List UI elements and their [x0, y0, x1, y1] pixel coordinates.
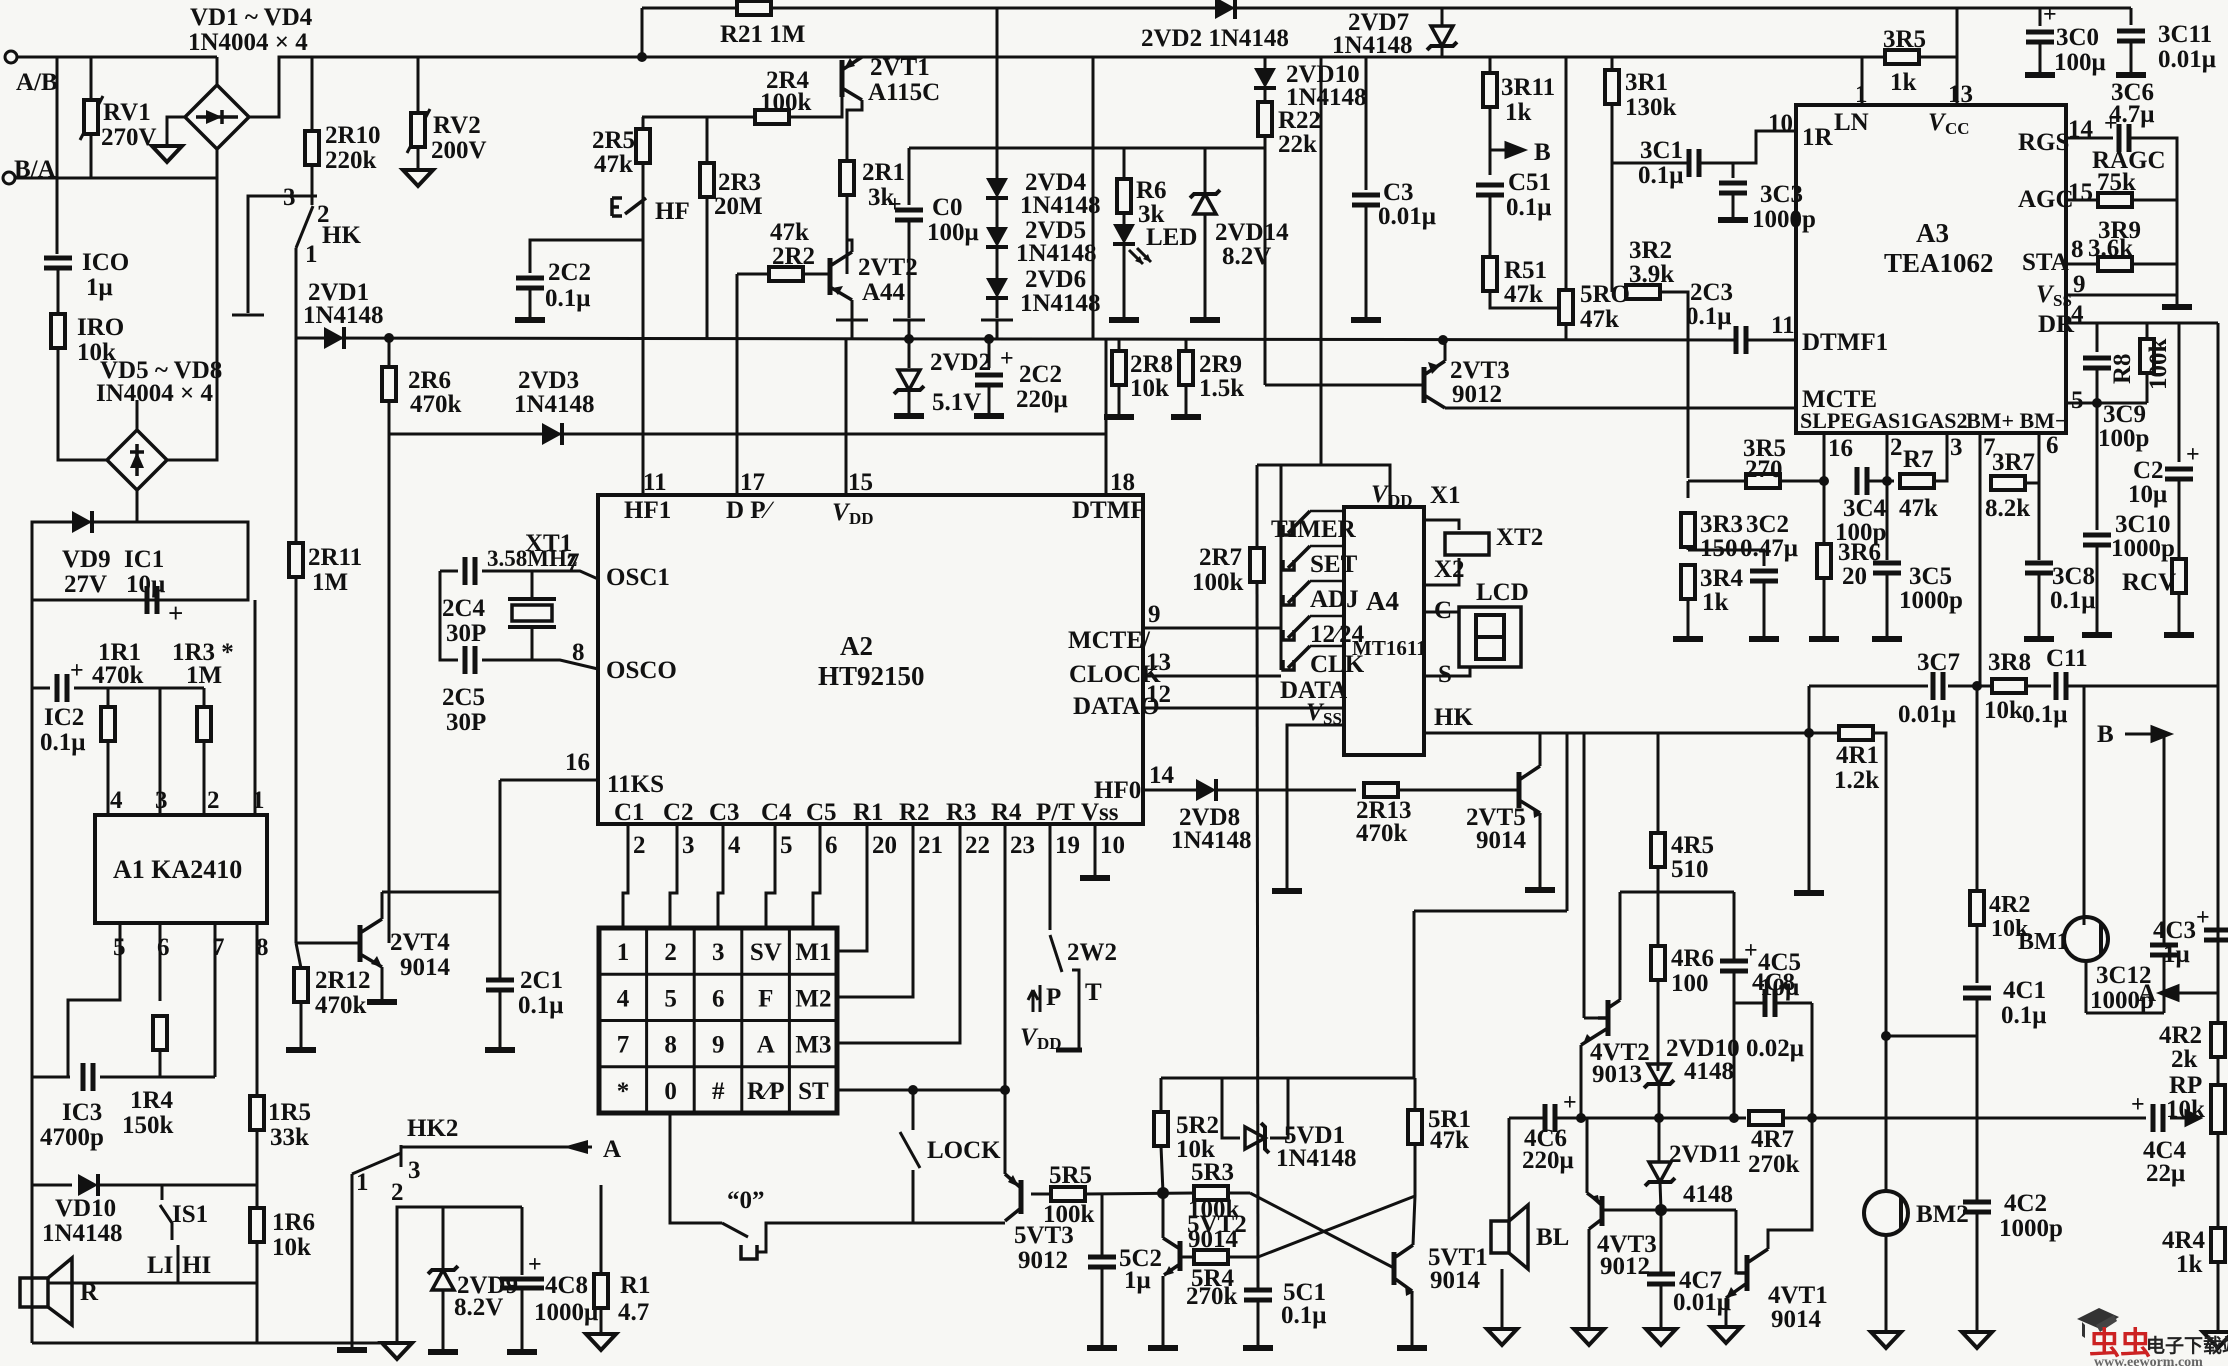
capacitor 2C1 [486, 980, 514, 990]
svg-text:3C2: 3C2 [1746, 511, 1789, 538]
svg-text:10μ: 10μ [126, 571, 165, 598]
svg-text:1N4148: 1N4148 [42, 1220, 123, 1247]
junction 1581 [1576, 1113, 1586, 1123]
HK2 arrow line [401, 1146, 592, 1149]
capacitor 2C3 [1736, 326, 1746, 354]
svg-text:2R12: 2R12 [315, 967, 371, 994]
junction 2VD11 [1655, 1204, 1667, 1216]
crystal XT2 [1445, 533, 1489, 555]
pin16 vert [499, 780, 502, 892]
bridge rectifier VD1-VD4 [185, 85, 249, 149]
5VT1 emit [1411, 1291, 1414, 1346]
capacitor 3C10 [2083, 535, 2111, 545]
svg-text:R51: R51 [1504, 257, 1547, 284]
wire 1809 v [1808, 686, 1811, 733]
HK2 lever [352, 1153, 401, 1174]
svg-text:VD10: VD10 [55, 1195, 116, 1222]
4VT2 base [1584, 1017, 1608, 1020]
wire pin8 w [2066, 263, 2098, 266]
pin16 v [1823, 433, 1826, 545]
wire 3R1 top [1611, 57, 1614, 70]
svg-text:CC: CC [1945, 119, 1970, 138]
C0 gnd bar [893, 319, 925, 322]
X diag A [1250, 1193, 1394, 1268]
resistor R1 [594, 1274, 608, 1308]
svg-text:DR: DR [2038, 311, 2075, 338]
wire C51 bot [1489, 195, 1492, 257]
4VT1 base [1736, 1210, 1747, 1273]
svg-text:1: 1 [252, 787, 265, 814]
lock line top [912, 1090, 915, 1130]
mic BM1 [2064, 917, 2108, 961]
svg-text:3R1: 3R1 [1625, 69, 1668, 96]
wire DR [2066, 322, 2218, 325]
capacitor 4C7 [1647, 1274, 1675, 1284]
svg-text:2VT1: 2VT1 [870, 54, 930, 81]
svg-text:M2: M2 [795, 985, 831, 1012]
svg-text:0.1μ: 0.1μ [1638, 162, 1683, 189]
wire 1R3 down pin2 [203, 741, 206, 815]
svg-text:A/B: A/B [16, 69, 58, 96]
svg-text:VD1 ~ VD4: VD1 ~ VD4 [190, 4, 313, 31]
svg-text:3R5: 3R5 [1883, 26, 1926, 53]
resistor 4R6 [1651, 946, 1665, 980]
ground 3C0 [2025, 74, 2055, 76]
ground 5VT1 [1397, 1347, 1427, 1349]
svg-text:1N4148: 1N4148 [1276, 1145, 1357, 1172]
svg-text:4VT1: 4VT1 [1768, 1282, 1828, 1309]
wire 3C10 down [2096, 545, 2099, 633]
wire 1R4 down [159, 1050, 162, 1077]
svg-text:HF1: HF1 [624, 497, 671, 524]
4VT2 coll up [1619, 892, 1622, 1000]
wire 2VD7 bot [1441, 46, 1444, 57]
svg-text:0.01μ: 0.01μ [1673, 1289, 1731, 1316]
box A4 MT1611 [1344, 507, 1424, 755]
ground A3 right [2162, 306, 2192, 308]
svg-text:3C10: 3C10 [2115, 511, 2171, 538]
4C8b left [1734, 1002, 1765, 1005]
wire pin1 up [254, 600, 257, 815]
svg-text:1N4148: 1N4148 [1332, 32, 1413, 59]
svg-text:2VT4: 2VT4 [390, 929, 450, 956]
wire 2VT4 base [296, 942, 360, 945]
svg-text:2R5: 2R5 [592, 127, 635, 154]
svg-text:10: 10 [1100, 832, 1125, 859]
wire 2R2 drop [736, 274, 739, 434]
svg-text:0.1μ: 0.1μ [1686, 303, 1731, 330]
svg-text:C2: C2 [2133, 457, 2164, 484]
svg-text:10μ: 10μ [2128, 481, 2167, 508]
varistor RV1 slash [80, 96, 103, 140]
svg-text:8: 8 [256, 934, 269, 961]
svg-text:100k: 100k [1043, 1201, 1095, 1228]
pin12 line [1143, 707, 1344, 710]
svg-text:17: 17 [740, 469, 765, 496]
wire pin7 [214, 923, 217, 1077]
diode 2VD5 [986, 227, 1008, 247]
HK2 pin1 down [351, 1174, 354, 1348]
svg-text:8: 8 [2071, 236, 2084, 263]
4VT1 emit [1725, 1298, 1728, 1325]
wire chain top [996, 8, 999, 178]
2VT3 coll up [1444, 340, 1447, 361]
svg-text:BL: BL [1536, 1224, 1569, 1251]
svg-text:+: + [2104, 111, 2118, 137]
transistor 4VT2 [1606, 1000, 1611, 1036]
svg-text:23: 23 [1010, 832, 1035, 859]
diode 2VD6 [986, 278, 1008, 298]
svg-text:XT2: XT2 [1496, 524, 1543, 551]
svg-text:Vss: Vss [1081, 799, 1119, 826]
capacitor 4C1 [1963, 988, 1991, 998]
svg-text:IRO: IRO [77, 314, 124, 341]
wire 2VT4 emit [381, 967, 384, 1000]
wire 2C3 right [1746, 339, 1796, 342]
wire xtal conn [531, 571, 534, 599]
transistor 5VT2 [1178, 1241, 1183, 1271]
wire 3C0 bot [2039, 42, 2042, 73]
ground 2C1 [485, 1049, 515, 1051]
4C7 bot [1660, 1284, 1663, 1327]
svg-text:R∕P: R∕P [747, 1078, 785, 1105]
ground right rail [2203, 1332, 2228, 1348]
svg-text:1000p: 1000p [1752, 206, 1816, 233]
svg-text:DTMF1: DTMF1 [1802, 329, 1888, 356]
svg-text:2R1: 2R1 [862, 159, 905, 186]
2W2 P arrow [1028, 990, 1038, 1012]
wire R1 down [600, 1308, 603, 1332]
capacitor 5C2 [1088, 1257, 1116, 1267]
svg-text:9012: 9012 [1018, 1247, 1068, 1274]
wire IS1 to spk [48, 1282, 257, 1285]
wire R7 right [1934, 433, 1947, 481]
svg-text:5.1V: 5.1V [932, 389, 981, 416]
box LCD [1459, 607, 1521, 667]
seven segment [1476, 615, 1504, 659]
5R4 right [1228, 1256, 1258, 1259]
svg-text:47k: 47k [594, 151, 633, 178]
3R7b right [2025, 482, 2039, 485]
svg-text:DD: DD [849, 509, 874, 528]
diode LED [1113, 224, 1135, 244]
resistor 4R5 [1651, 833, 1665, 867]
wire pin6 [159, 923, 162, 1001]
pin17 line [736, 434, 739, 495]
wire pin9 w [2066, 294, 2177, 297]
svg-text:150: 150 [1700, 535, 1738, 562]
junction 2VD2 bus [904, 334, 914, 344]
kp col 718 [718, 862, 723, 928]
wire 481 row [1688, 480, 1824, 483]
chain gnd bar [981, 319, 1013, 322]
resistor R51 [1483, 257, 1497, 291]
wire 2R2 left [737, 273, 769, 276]
svg-text:HK: HK [322, 222, 361, 249]
wire 2R1 down [846, 195, 849, 274]
2R8 bot [1118, 385, 1121, 415]
ground bridge1 [152, 146, 182, 162]
2R8 top [1118, 340, 1121, 351]
wire 5RO top [1565, 57, 1568, 290]
svg-text:A: A [603, 1136, 621, 1163]
svg-text:2VD3: 2VD3 [518, 367, 579, 394]
svg-text:0.1μ: 0.1μ [2001, 1002, 2046, 1029]
pin line R4 [1004, 824, 1007, 862]
svg-text:SLPEGAS1GAS2: SLPEGAS1GAS2 [1800, 408, 1968, 433]
HK stub end bar [232, 314, 264, 317]
wire bottom rail [32, 1342, 397, 1345]
wire 2C2b bot [988, 385, 991, 414]
wire base row b [789, 95, 842, 117]
right rail [2217, 323, 2220, 1330]
capacitor IC1 sym [147, 586, 157, 614]
5R2 top [1160, 1078, 1163, 1112]
box A2 HT92150 [598, 495, 1143, 824]
svg-text:1R4: 1R4 [130, 1087, 174, 1114]
varistor RV2 [411, 113, 425, 147]
wire 910 row [1414, 910, 1567, 913]
wire 1118 b [1555, 1117, 1746, 1120]
wire 2C5 right [482, 660, 598, 669]
mic BM2 [1864, 1191, 1908, 1235]
keypad grid [599, 928, 837, 1113]
transistor 5VT3 [1019, 1180, 1024, 1214]
lock line bot [912, 1170, 915, 1223]
svg-text:4.7: 4.7 [618, 1299, 649, 1326]
wire 2R10 bottom [311, 165, 314, 196]
svg-text:IS1: IS1 [172, 1201, 208, 1228]
resistor 2R12 [294, 968, 308, 1002]
svg-text:1000μ: 1000μ [534, 1299, 598, 1326]
svg-text:6: 6 [825, 832, 838, 859]
resistor 3R2 [1626, 285, 1660, 299]
svg-text:8.2V: 8.2V [454, 1294, 503, 1321]
svg-text:P: P [1046, 984, 1061, 1011]
resistor 2R10 [305, 131, 319, 165]
wire xtal conn2 [531, 627, 534, 660]
resistor 3R1 [1605, 70, 1619, 104]
svg-text:A44: A44 [862, 279, 906, 306]
wire IC2 row [32, 687, 50, 690]
4C7 top [1660, 1210, 1663, 1274]
svg-text:+: + [2186, 442, 2200, 468]
svg-text:1μ: 1μ [86, 274, 113, 301]
svg-text:1R5: 1R5 [268, 1099, 311, 1126]
diode 2VD1 [324, 327, 344, 349]
wire 2R3 top [706, 117, 709, 163]
svg-text:A4: A4 [1366, 586, 1399, 616]
A arrow l [2160, 986, 2218, 1000]
capacitor 3C4 [1857, 467, 1867, 495]
wire 2VD2 top [908, 338, 911, 368]
svg-text:2R2: 2R2 [772, 243, 815, 270]
svg-text:100p: 100p [2098, 425, 2149, 452]
svg-text:OSCO: OSCO [606, 657, 677, 684]
B arrow right [1490, 143, 1524, 157]
resistor RAGC [2098, 193, 2132, 207]
svg-text:3C11: 3C11 [2158, 21, 2212, 48]
svg-text:R1: R1 [620, 1272, 651, 1299]
wire pin1 [1861, 57, 1864, 105]
resistor 5R2 [1154, 1112, 1168, 1146]
svg-text:R3: R3 [946, 799, 977, 826]
svg-text:47k: 47k [1430, 1127, 1469, 1154]
svg-text:3R3: 3R3 [1700, 511, 1743, 538]
svg-text:2: 2 [391, 1179, 404, 1206]
diode 2VD3 [542, 423, 562, 445]
wire chain bot2 [996, 320, 999, 338]
svg-text:200V: 200V [431, 137, 487, 164]
IS1 bottom [177, 1245, 180, 1283]
svg-text:LN: LN [1834, 109, 1869, 136]
5VT3 emit up [1004, 1090, 1007, 1174]
wire 3C1 left [1612, 162, 1689, 165]
wire bridge2 bottom [136, 490, 139, 522]
wire 2C1 down [499, 990, 502, 1048]
svg-text:270k: 270k [1748, 1151, 1800, 1178]
wire 2R13 right [1398, 789, 1519, 792]
5VT3 to 5R5 [1031, 1193, 1051, 1196]
capacitor 3C5 [1873, 563, 1901, 573]
4R5 bot [1657, 867, 1660, 946]
svg-text:3.9k: 3.9k [1629, 261, 1674, 288]
svg-text:4R1: 4R1 [1836, 742, 1879, 769]
pin line Vss [1094, 824, 1097, 862]
svg-text:3.58MHz: 3.58MHz [487, 546, 577, 571]
svg-text:1k: 1k [2176, 1251, 2203, 1278]
wire 2VT4 coll [381, 892, 384, 919]
svg-text:22: 22 [965, 832, 990, 859]
wire A4 vss [1287, 725, 1344, 889]
svg-text:C3: C3 [1383, 179, 1414, 206]
svg-text:5: 5 [113, 934, 126, 961]
wire bridge left to gnd [167, 117, 185, 144]
svg-text:RP: RP [2169, 1072, 2202, 1099]
svg-text:9013: 9013 [1592, 1061, 1642, 1088]
svg-text:47k: 47k [1580, 306, 1619, 333]
5VT1 coll [1413, 1196, 1415, 1245]
wire HK pin1 down [295, 248, 298, 338]
zero col [670, 1113, 722, 1223]
junction 5R2 [1157, 1187, 1169, 1199]
pin7 line [560, 571, 598, 579]
wire top bus A [17, 56, 217, 59]
wire 4C8 drop [521, 1207, 524, 1275]
svg-text:9014: 9014 [1476, 827, 1527, 854]
R6 top [1123, 148, 1126, 179]
ground A4 vss [1272, 890, 1302, 892]
resistor R21 [737, 1, 771, 15]
svg-text:R2: R2 [899, 799, 930, 826]
svg-text:2R9: 2R9 [1199, 351, 1242, 378]
wire GA [2066, 402, 2147, 405]
svg-text:1μ: 1μ [2163, 941, 2190, 968]
resistor 1R6 [250, 1208, 264, 1242]
svg-text:9014: 9014 [1430, 1267, 1481, 1294]
svg-text:3R4: 3R4 [1700, 565, 1744, 592]
4C5 top [1733, 892, 1736, 961]
ground 4C7 [1646, 1329, 1676, 1345]
varistor RV2 slash [407, 109, 430, 153]
capacitor 3C9 [2083, 358, 2111, 368]
5VD1 right [1270, 1078, 1288, 1138]
svg-text:T: T [1085, 979, 1102, 1006]
transistor 2VT2 [828, 258, 833, 295]
resistor 4R2b [2211, 1023, 2225, 1057]
ground Vss [1080, 877, 1110, 879]
svg-text:5: 5 [664, 985, 677, 1012]
svg-text:100k: 100k [1192, 569, 1244, 596]
svg-text:0.01μ: 0.01μ [1378, 203, 1436, 230]
svg-text:9: 9 [712, 1032, 725, 1059]
ground 4C2 [1962, 1332, 1992, 1348]
resistor 3R5b [1746, 474, 1780, 488]
wire RV1 top [90, 57, 93, 100]
svg-text:2VD2 1N4148: 2VD2 1N4148 [1141, 25, 1289, 52]
wire RAGC right [2132, 199, 2177, 202]
svg-text:130k: 130k [1625, 94, 1677, 121]
svg-text:16: 16 [1828, 435, 1853, 462]
svg-text:4C8: 4C8 [545, 1272, 588, 1299]
2VT2 emit bar [836, 319, 868, 322]
svg-text:1N4148: 1N4148 [303, 302, 384, 329]
wire R8 v2 [2146, 372, 2149, 403]
wire VD10 right [98, 1184, 257, 1187]
switch bank 3 [1283, 630, 1294, 640]
svg-text:1: 1 [356, 1169, 369, 1196]
3C8 down [2038, 573, 2041, 637]
switch bank 1 [1283, 560, 1294, 570]
svg-text:R21 1M: R21 1M [720, 21, 805, 48]
wire 2R6 below [388, 434, 391, 943]
svg-text:9012: 9012 [1452, 381, 1502, 408]
3R4 down [1687, 599, 1690, 637]
4VT3 coll down [1588, 1229, 1591, 1327]
svg-text:510: 510 [1671, 856, 1709, 883]
svg-text:1000p: 1000p [2111, 535, 2175, 562]
svg-text:DTMF: DTMF [1072, 497, 1146, 524]
svg-text:16: 16 [565, 749, 590, 776]
capacitor C2 [2165, 469, 2193, 479]
svg-text:15: 15 [2068, 179, 2093, 206]
svg-text:2R6: 2R6 [408, 367, 451, 394]
wire 1013 row [2086, 1012, 2164, 1015]
IS1 stub [161, 1185, 164, 1200]
kp row 951 [837, 862, 867, 951]
wire 2C1 top [499, 892, 502, 980]
junction 1809 730 [1804, 728, 1814, 738]
wire 2C2a top [530, 240, 643, 273]
resistor 2R2 [769, 267, 803, 281]
ground 2C2a [515, 319, 545, 321]
box A1 KA2410 [95, 815, 267, 923]
junction 1977 686 [1972, 681, 1982, 691]
ground 3R6 [1809, 638, 1839, 640]
junction 1734 [1729, 1113, 1739, 1123]
junction 1812 [1807, 1113, 1817, 1123]
wire 2R2 right [803, 273, 830, 276]
svg-text:2: 2 [664, 939, 677, 966]
wire 2R7 bot [1257, 582, 1258, 1290]
svg-text:100k: 100k [760, 89, 812, 116]
zener 2VD14 [1190, 190, 1220, 214]
svg-text:100p: 100p [1835, 519, 1886, 546]
svg-text:2R11: 2R11 [308, 544, 362, 571]
svg-text:22μ: 22μ [2146, 1160, 2185, 1187]
svg-text:3: 3 [155, 787, 168, 814]
svg-text:47k: 47k [770, 219, 809, 246]
